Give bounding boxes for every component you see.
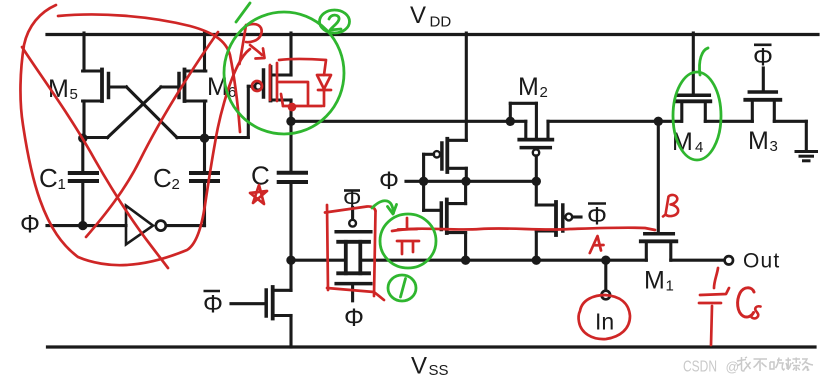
node C bottom <box>286 256 295 265</box>
wire: node B down to M1 gate <box>657 121 660 232</box>
capacitor C2 <box>191 138 218 226</box>
capacitor C1 <box>70 138 97 226</box>
svg-text:@: @ <box>726 360 740 375</box>
svg-text:Φ: Φ <box>379 167 399 195</box>
wire: M4 to M3 <box>705 120 752 123</box>
svg-text:1: 1 <box>58 176 66 193</box>
node M6 source <box>200 134 209 143</box>
green tail top left <box>236 3 250 22</box>
GREEN annotations <box>224 3 721 301</box>
green circle around switch doodle <box>380 214 436 268</box>
red sketch diode <box>317 75 331 89</box>
red capacitor CS bottom plate <box>699 302 721 305</box>
svg-text:DD: DD <box>430 14 452 31</box>
red label B <box>663 195 678 217</box>
red oval around charge pump (left stroke) <box>20 5 250 265</box>
RED annotations <box>20 5 760 345</box>
node M5 source <box>78 134 87 143</box>
wire: boosted node to M2 <box>291 120 526 123</box>
transistor M2 <box>510 103 552 181</box>
svg-text:M: M <box>518 73 539 101</box>
red sketch node dot <box>289 104 295 110</box>
node A <box>601 256 610 265</box>
green ellipse around M7 <box>224 12 344 134</box>
svg-text:1: 1 <box>666 278 674 295</box>
wire: M2 to M4 <box>548 120 681 123</box>
transistor M4 <box>677 33 711 121</box>
red X arm 1 <box>22 47 168 268</box>
red oval around charge pump (top stroke) <box>58 14 240 132</box>
node phi input <box>78 221 87 230</box>
red arrow under P <box>250 45 262 55</box>
capacitor C <box>279 121 306 260</box>
svg-text:Φ: Φ <box>753 44 773 72</box>
svg-text:V: V <box>411 353 427 380</box>
red label A <box>590 236 604 253</box>
wire: VDD drop to latch <box>465 33 468 140</box>
svg-text:5: 5 <box>70 86 78 103</box>
svg-text:CSDN: CSDN <box>683 359 717 376</box>
wire: M1 drain to Out <box>671 259 725 262</box>
red capacitor CS top plate <box>700 288 729 295</box>
node latch mid <box>461 177 470 186</box>
ground <box>796 152 817 161</box>
red star under C <box>250 185 267 204</box>
red sketch top wire <box>279 59 326 75</box>
overbar phibar TG <box>344 189 360 192</box>
svg-text:V: V <box>410 2 426 29</box>
node boosted top plate <box>286 117 295 126</box>
overbar phibar Td <box>204 290 221 293</box>
transistor M6 <box>161 33 206 139</box>
red rectangle around TG <box>327 205 328 290</box>
wire: latch mid rail <box>424 180 537 183</box>
red blob around In <box>579 295 630 339</box>
red capacitor CS lead bottom <box>711 306 712 345</box>
green circle 2 <box>320 10 350 33</box>
svg-text:2: 2 <box>172 176 180 193</box>
VDD rail <box>47 33 818 36</box>
red label CS <box>738 288 754 317</box>
svg-text:Φ: Φ <box>20 211 40 239</box>
wire: bottom node rail left <box>291 259 346 262</box>
red squiggle wire A <box>392 228 655 231</box>
transistor Td (phibar NMOS bottom left) <box>231 260 291 347</box>
transistor M1 <box>641 234 677 260</box>
wire: M6 gate cross-couple to node of M5 source <box>83 87 161 138</box>
green tail M4 <box>699 48 708 75</box>
transistor M3 <box>745 68 780 121</box>
svg-text:C: C <box>153 163 172 193</box>
svg-text:4: 4 <box>695 139 703 156</box>
svg-text:In: In <box>595 309 614 335</box>
svg-text:2: 2 <box>540 84 548 101</box>
transistor Ma (latch PMOS) <box>424 139 467 182</box>
svg-text:C: C <box>39 163 58 193</box>
wire: TG to node A <box>360 259 646 262</box>
wire: phi input to inverter <box>47 224 126 227</box>
red sketch bottom wire <box>283 105 322 108</box>
transistor Mc (phibar PMOS) <box>536 181 581 260</box>
svg-text:Φ: Φ <box>587 203 607 231</box>
node latch bottom 2 <box>532 256 541 265</box>
wire: phi lead to latch <box>406 180 419 183</box>
svg-text:Out: Out <box>743 250 780 273</box>
svg-text:M: M <box>748 127 769 155</box>
node B junction <box>654 117 663 126</box>
red capacitor CS lead top <box>714 268 718 288</box>
node phi latch <box>419 177 428 186</box>
wire: node A to In terminal <box>604 260 607 290</box>
node M2 gate <box>532 177 541 186</box>
red sketch transistor overdraw <box>252 81 262 91</box>
svg-text:3: 3 <box>770 138 778 155</box>
svg-text:Φ: Φ <box>203 291 223 319</box>
svg-text:M: M <box>644 267 665 295</box>
red X arm 2 <box>86 32 218 237</box>
transistor Mb (latch NMOS) <box>441 181 465 260</box>
VSS rail <box>48 345 816 348</box>
green arrow to switch doodle <box>372 201 394 213</box>
green digit 1 <box>401 279 406 298</box>
red switch doodle top <box>398 218 417 230</box>
wire: latch gate node <box>424 154 441 210</box>
red letter P <box>240 25 247 64</box>
red sketch gate wire <box>279 82 308 104</box>
wire: M5 gate cross-couple to node of M6 source <box>127 87 206 138</box>
node In terminal <box>602 291 611 300</box>
overbar phibar M3 <box>754 43 772 46</box>
node Out terminal <box>725 256 733 264</box>
green ellipse around M4 <box>673 72 721 160</box>
transmission gate TG <box>336 208 371 301</box>
transistor M7 (boost device, circled) <box>248 33 291 121</box>
node M2 left <box>506 117 515 126</box>
inverter U1 <box>126 206 205 245</box>
overbar phibar latch <box>588 202 606 205</box>
wire: M3 to ground <box>774 121 806 150</box>
wire: M7 gate to node of C2 <box>205 86 249 137</box>
green digit 2 <box>329 15 341 30</box>
watermark chinese strokes <box>737 357 813 371</box>
green circle 1 <box>388 275 416 301</box>
node latch bottom 1 <box>461 256 470 265</box>
svg-text:Φ: Φ <box>344 304 364 332</box>
svg-text:SS: SS <box>429 362 449 379</box>
overbars for phibar labels <box>204 45 772 291</box>
watermark CSDN <box>683 359 739 376</box>
transistor M5 <box>83 33 127 139</box>
red switch doodle bottom <box>397 241 419 254</box>
